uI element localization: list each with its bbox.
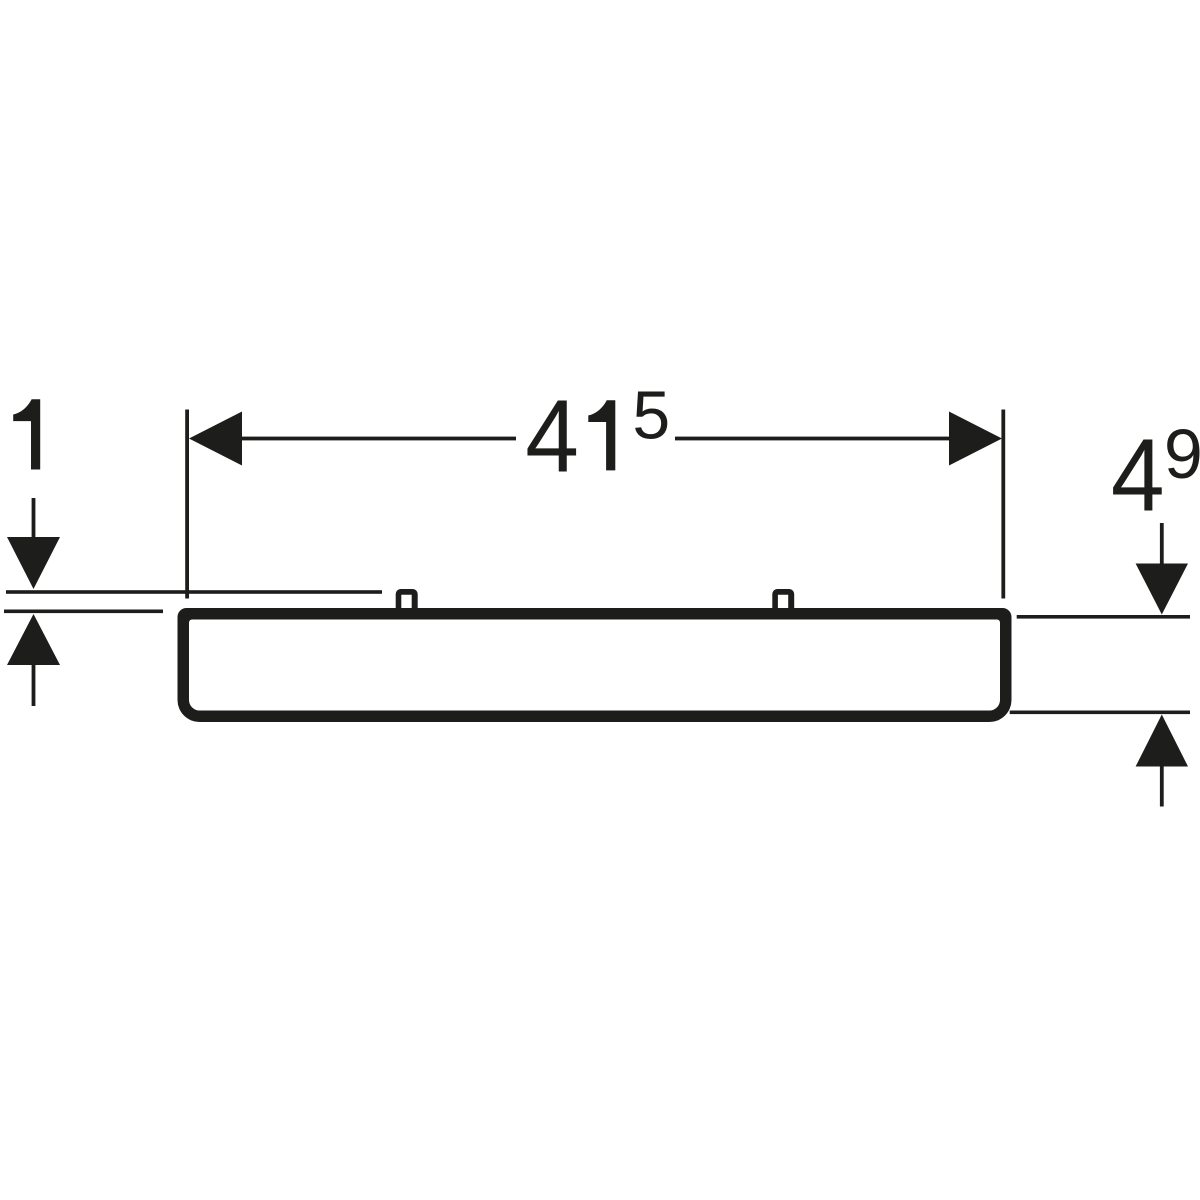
dimension line 41.5 left segment (240, 437, 516, 441)
fastening clip 1 (396, 589, 418, 609)
reference line clip top (6, 590, 382, 594)
extension line shelf bottom right (1010, 711, 1190, 715)
arrowhead down dim 4.9 (1136, 564, 1188, 615)
arrowhead down dim 1 (7, 537, 60, 589)
dimension label 1 (13, 399, 40, 469)
fastening clip 2 (772, 589, 794, 609)
svg-text:4: 4 (525, 379, 579, 494)
shelf body profile (178, 608, 1012, 722)
stem of down arrow dim 1 (32, 498, 36, 538)
dimension line 41.5 right segment (675, 437, 949, 441)
svg-text:9: 9 (1164, 415, 1200, 493)
reference line shelf top (4, 610, 163, 614)
stem of up arrow dim 1 (32, 665, 36, 706)
arrowhead left of dim 41.5 (189, 412, 242, 466)
dimension label 41: digit 1 (588, 400, 615, 470)
stem of up arrow dim 4.9 (1160, 767, 1164, 807)
arrowhead up dim 1 (7, 614, 60, 665)
extension line right (1001, 410, 1005, 599)
stem of down arrow dim 4.9 (1160, 523, 1164, 564)
extension line left (185, 410, 189, 599)
arrowhead right of dim 41.5 (949, 412, 1002, 466)
extension line shelf top right (1017, 615, 1190, 619)
svg-text:4: 4 (1111, 418, 1165, 533)
svg-text:5: 5 (632, 378, 670, 454)
arrowhead up dim 4.9 (1136, 715, 1188, 767)
